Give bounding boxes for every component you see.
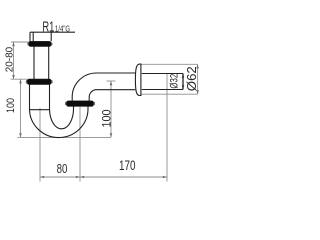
svg-text:R1: R1 [42, 19, 54, 36]
svg-text:20-80: 20-80 [4, 47, 16, 73]
svg-text:100: 100 [100, 109, 114, 127]
svg-text:100: 100 [5, 98, 17, 113]
svg-text:170: 170 [119, 158, 136, 173]
svg-text:Ø32: Ø32 [168, 74, 180, 89]
svg-text:80: 80 [57, 161, 68, 176]
svg-text:Ø62: Ø62 [185, 66, 199, 91]
svg-text:1/4"G: 1/4"G [55, 23, 70, 33]
